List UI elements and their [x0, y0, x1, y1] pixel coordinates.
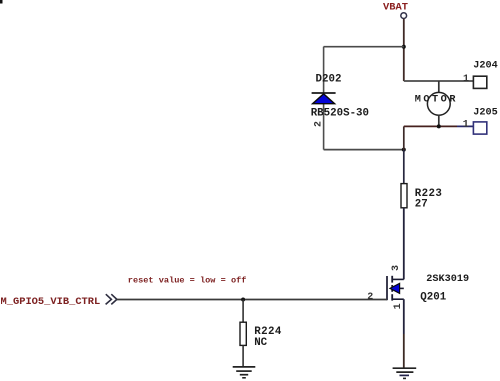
resistor R223: [401, 184, 407, 208]
port chevron 2: [111, 294, 117, 304]
transistor Q201 drain hook: [392, 278, 404, 280]
motor M top stem: [438, 81, 440, 93]
ground left bar4: [242, 377, 246, 379]
wire to J204: [404, 80, 473, 82]
motor M circle: [427, 92, 450, 115]
wire Q201 source to ground lower: [403, 334, 405, 368]
svg-text:3: 3: [391, 265, 402, 271]
corner mark: [0, 0, 3, 4]
transistor Q201 body diode arrow: [390, 283, 400, 293]
svg-text:MOTOR: MOTOR: [415, 95, 458, 106]
ground left bar2: [236, 370, 252, 372]
junction dot R224 tap: [241, 298, 245, 302]
junction dot node B: [402, 148, 406, 152]
VBAT terminal circle: [401, 13, 407, 19]
connector J204 square: [473, 76, 486, 88]
wire top horizontal to diode branch: [324, 46, 404, 48]
svg-text:RB520S-30: RB520S-30: [311, 108, 369, 120]
ground right bar3: [400, 374, 410, 376]
svg-text:27: 27: [415, 198, 428, 210]
wire tap to R224: [242, 300, 244, 323]
junction dot motor bottom: [437, 124, 441, 128]
ground left bar1: [233, 366, 256, 368]
transistor Q201 channel top segment: [391, 276, 393, 283]
ground right bar4: [403, 377, 406, 379]
svg-text:J205: J205: [473, 108, 497, 119]
svg-text:2: 2: [314, 121, 325, 127]
svg-text:M_GPIO5_VIB_CTRL: M_GPIO5_VIB_CTRL: [1, 296, 101, 308]
svg-text:1: 1: [393, 303, 404, 309]
wire R223 to Q201 drain: [403, 208, 405, 280]
ground right bar2: [396, 371, 413, 373]
transistor Q201 channel bottom segment: [391, 294, 393, 300]
wire to R223 top: [403, 150, 405, 184]
transistor Q201 source lead: [392, 298, 404, 300]
transistor Q201 gate bar: [386, 276, 388, 300]
motor M bottom stem: [438, 115, 440, 126]
wire diode bottom horizontal: [324, 149, 404, 151]
connector J205 square: [473, 122, 486, 134]
svg-text:D202: D202: [316, 74, 342, 86]
svg-text:VBAT: VBAT: [383, 2, 408, 14]
transistor Q201 body line: [392, 287, 404, 289]
wire control horizontal: [117, 299, 387, 301]
ground right bar1: [393, 367, 417, 369]
svg-text:NC: NC: [254, 337, 267, 349]
transistor Q201 channel middle segment: [391, 285, 393, 292]
diode D202 cathode bar: [312, 92, 336, 94]
resistor R224: [240, 322, 246, 345]
svg-text:2: 2: [367, 292, 373, 303]
wire VBAT vertical: [403, 19, 405, 81]
ground left bar3: [240, 374, 248, 376]
diode D202 triangle: [313, 94, 335, 104]
svg-text:J204: J204: [473, 61, 497, 72]
wire R224 to ground: [242, 345, 244, 366]
wire to J205 maroon part: [404, 125, 457, 127]
svg-text:Q201: Q201: [420, 292, 446, 304]
wire J205 corner segment: [403, 126, 405, 150]
wire to J205 blue part: [457, 125, 473, 127]
wire Q201 source to ground upper: [403, 299, 405, 334]
svg-text:1: 1: [463, 74, 469, 85]
svg-text:2SK3019: 2SK3019: [426, 274, 469, 285]
svg-text:1: 1: [463, 120, 469, 131]
port chevron 1: [106, 294, 112, 304]
junction dot node A: [402, 45, 406, 49]
wire diode branch vertical: [323, 47, 325, 150]
svg-text:reset value = low = off: reset value = low = off: [128, 276, 247, 286]
